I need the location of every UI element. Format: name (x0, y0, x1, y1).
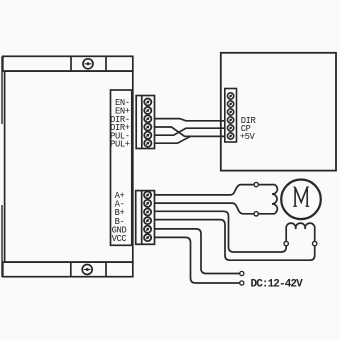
svg-text:+5V: +5V (240, 132, 256, 142)
svg-text:VCC: VCC (112, 234, 127, 244)
svg-text:DC:12-42V: DC:12-42V (251, 278, 304, 290)
svg-text:PUL+: PUL+ (110, 139, 130, 149)
